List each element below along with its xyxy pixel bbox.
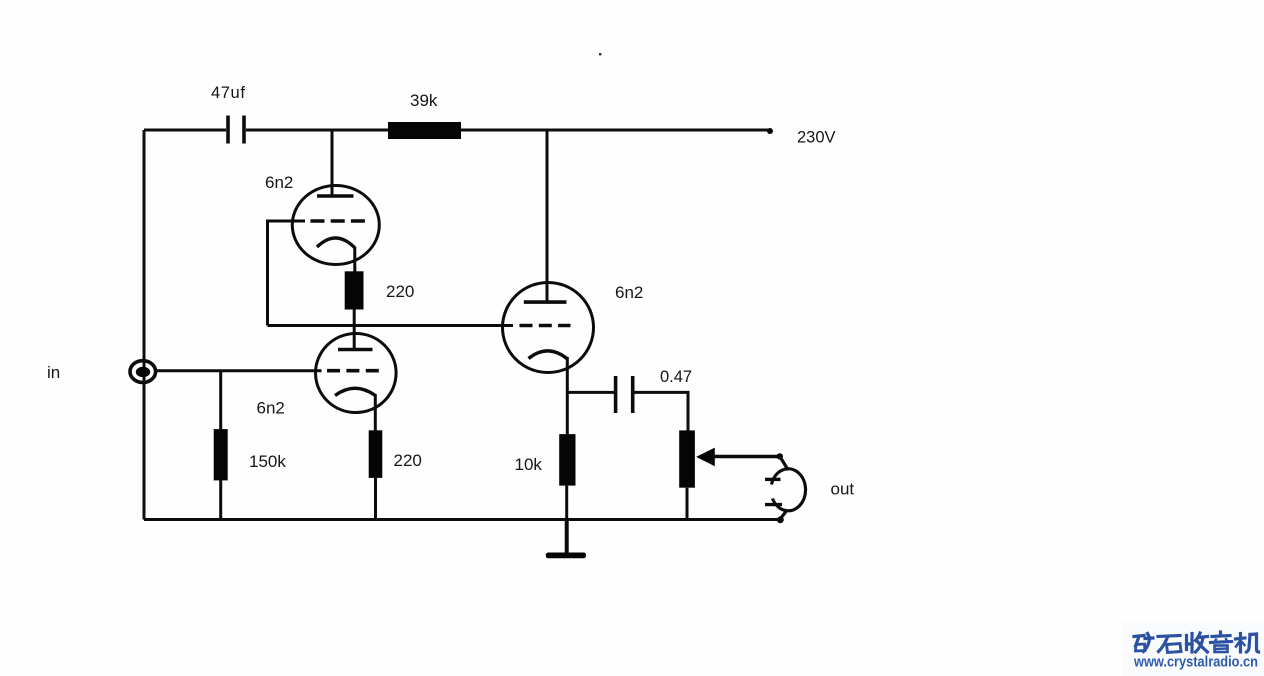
connector J2 out barrel xyxy=(772,469,806,511)
svg-text:230V: 230V xyxy=(797,129,836,147)
wire top rail middle segment xyxy=(246,129,389,132)
wire V1 cathode lead xyxy=(353,247,356,272)
resistor R1 39k xyxy=(388,122,461,139)
wire anode lead V1 xyxy=(331,130,334,196)
svg-text:www.crystalradio.cn: www.crystalradio.cn xyxy=(1133,655,1258,671)
char ji xyxy=(1236,634,1259,653)
connector J2 out bottom lead xyxy=(781,512,787,519)
wire potentiometer bottom lead xyxy=(686,488,689,520)
triode V1 6n2 envelope xyxy=(292,186,379,265)
node wiper terminal dot xyxy=(777,453,783,459)
potentiometer RV1 body xyxy=(679,430,695,487)
connector J1 in (center pin) xyxy=(136,367,150,377)
wire 10k bottom lead xyxy=(565,486,568,520)
svg-text:6n2: 6n2 xyxy=(257,399,285,418)
wire in to V2 grid xyxy=(156,369,322,372)
wire anode lead V3 xyxy=(546,130,549,302)
svg-text:47uf: 47uf xyxy=(211,84,246,102)
connector J2 out top lead xyxy=(781,458,789,471)
wire mid horizontal (V1 grid net to V3 grid) xyxy=(268,324,514,327)
svg-text:39k: 39k xyxy=(410,91,438,110)
wire R4 bottom lead xyxy=(374,478,377,520)
triode V2 anode plate xyxy=(338,348,373,352)
char yin xyxy=(1211,632,1232,652)
svg-text:6n2: 6n2 xyxy=(615,283,643,302)
char shou xyxy=(1187,633,1208,652)
svg-text:out: out xyxy=(831,480,855,499)
capacitor C2 0.47 plates xyxy=(616,376,633,413)
triode V1 grid (dashed) xyxy=(311,219,366,223)
node out bottom dot xyxy=(777,516,784,523)
triode V3 grid (dashed) xyxy=(520,324,571,328)
resistor R3 150k xyxy=(214,429,228,480)
triode V2 grid (dashed) xyxy=(327,369,380,373)
svg-text:in: in xyxy=(47,363,60,382)
watermark logo 矿石收音机 xyxy=(1134,632,1259,653)
char shi xyxy=(1158,636,1181,653)
triode V1 anode plate xyxy=(317,194,354,198)
wire V2 cathode lead xyxy=(374,394,377,431)
wire V1 grid to left xyxy=(268,221,306,326)
triode V3 cathode xyxy=(529,351,568,359)
svg-text:10k: 10k xyxy=(515,455,543,474)
connector J1 in (outer ring) xyxy=(130,361,156,383)
connector J2 lower contact tick xyxy=(765,503,782,506)
resistor R5 10k xyxy=(559,434,575,486)
wire wiper shaft xyxy=(713,455,780,459)
triode V2 6n2 envelope xyxy=(316,334,397,413)
capacitor C1 47uf plates xyxy=(228,116,244,144)
stray ink speck xyxy=(599,53,601,55)
connector J2 upper contact tick xyxy=(765,478,781,481)
wire bottom rail xyxy=(144,518,781,521)
wire 150k top lead xyxy=(219,371,222,430)
svg-text:6n2: 6n2 xyxy=(265,173,293,192)
triode V1 cathode xyxy=(317,238,355,248)
node 230V terminal dot xyxy=(767,128,773,134)
triode V3 6n2 envelope xyxy=(503,283,594,373)
resistor R2 220 xyxy=(345,271,364,309)
wire ground lead xyxy=(565,520,569,554)
svg-text:0.47: 0.47 xyxy=(660,368,692,386)
wire R2 bottom to V2 anode xyxy=(353,310,356,350)
resistor R4 220 xyxy=(369,430,383,478)
watermark backdrop xyxy=(1122,622,1264,676)
triode V2 cathode xyxy=(335,388,375,395)
svg-text:220: 220 xyxy=(394,451,422,470)
wire V3 cathode lead xyxy=(566,357,569,435)
triode V3 anode plate xyxy=(524,300,567,304)
wire 150k bottom lead xyxy=(219,480,222,520)
wire left rail xyxy=(143,130,146,520)
wire cathode to coupling cap xyxy=(567,391,614,394)
potentiometer RV1 wiper arrow xyxy=(696,448,715,467)
ground xyxy=(546,553,586,559)
svg-text:150k: 150k xyxy=(249,452,286,471)
wire top rail right segment xyxy=(460,129,770,132)
wire cap to potentiometer top xyxy=(634,392,688,431)
svg-text:220: 220 xyxy=(386,282,414,301)
wire top rail left segment xyxy=(144,129,226,132)
char kuang xyxy=(1134,634,1153,652)
